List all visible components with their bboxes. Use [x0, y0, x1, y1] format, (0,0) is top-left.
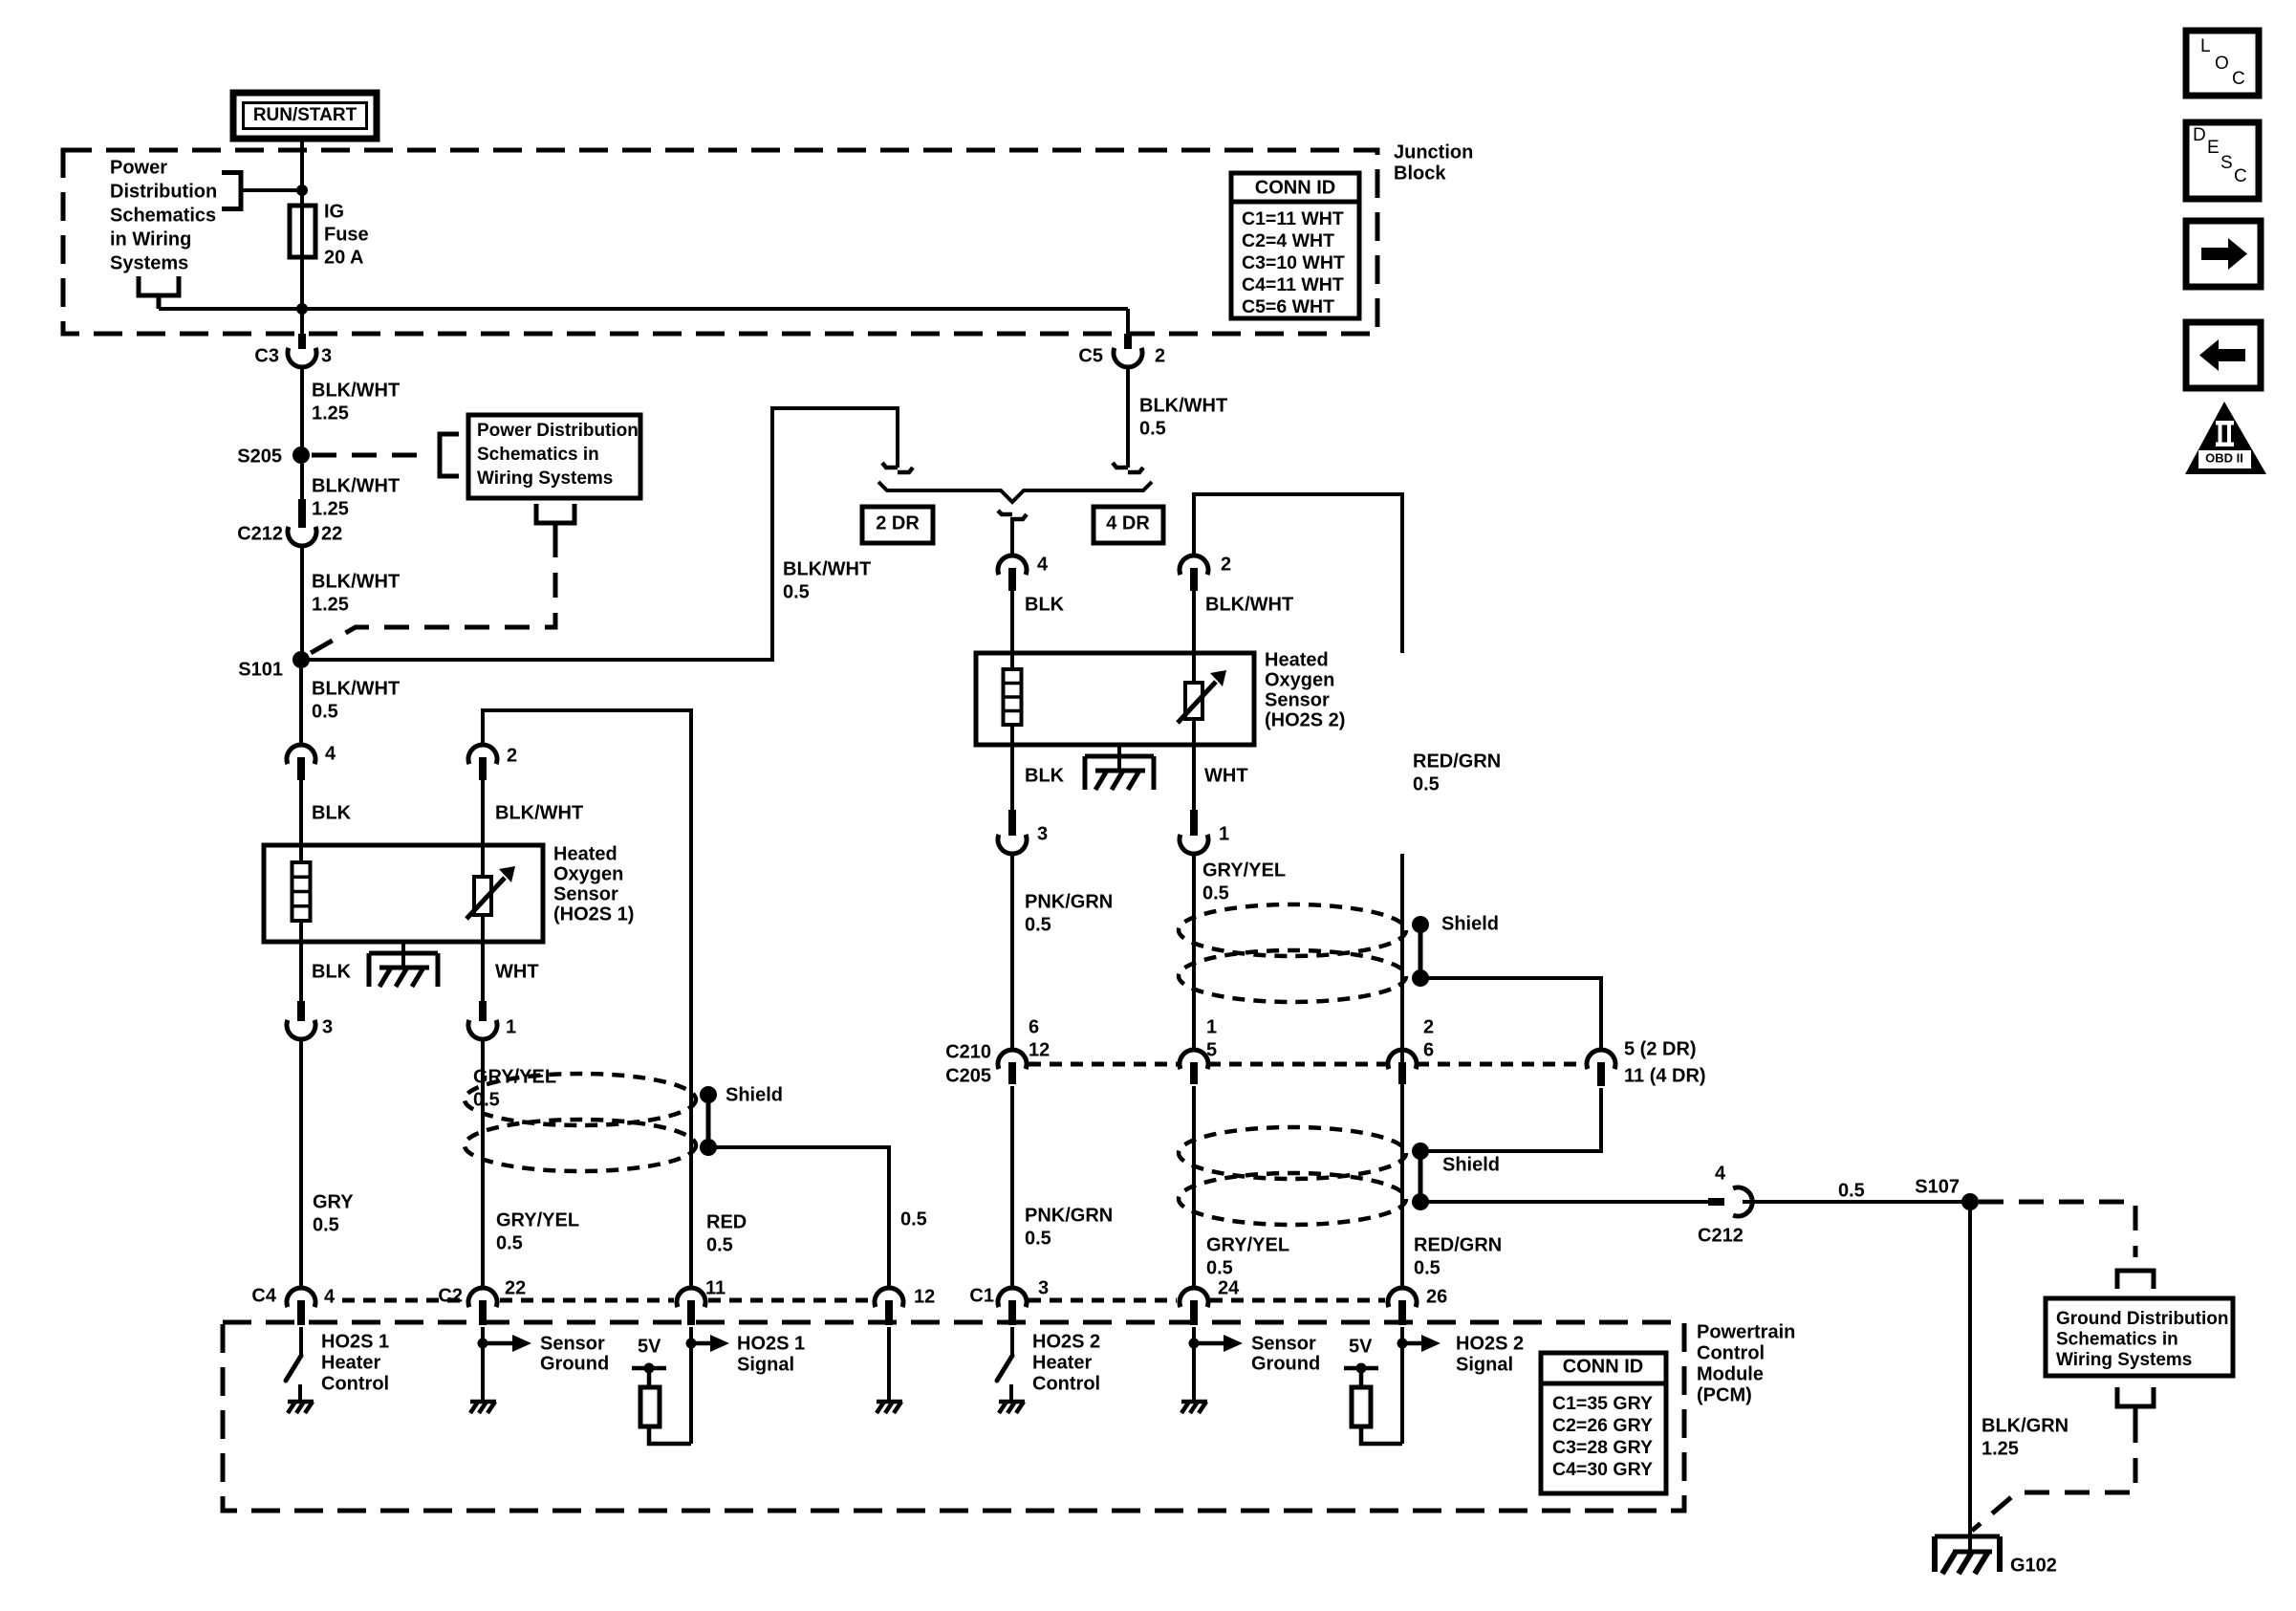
icon arrow right	[2186, 221, 2261, 287]
ground shield drain HO2S1	[877, 1400, 902, 1404]
HO2S1 signal junction	[689, 1327, 693, 1444]
svg-text:0.5: 0.5	[1139, 419, 1166, 440]
svg-text:RED/GRN: RED/GRN	[1413, 751, 1501, 773]
connector HO2S1 pin 2	[468, 745, 497, 764]
svg-text:Powertrain: Powertrain	[1697, 1322, 1795, 1343]
svg-text:4: 4	[1715, 1164, 1726, 1185]
shield drain dots lower	[1412, 1143, 1429, 1160]
connector HO2S1 pin 3	[297, 1001, 305, 1021]
wire GRY/YEL 0.5 to PCM 24	[1192, 1086, 1196, 1288]
svg-text:BLK: BLK	[1025, 595, 1065, 616]
wire fuse to junction-block bus	[300, 257, 304, 334]
svg-text:BLK/WHT: BLK/WHT	[783, 559, 871, 580]
svg-text:0.5: 0.5	[496, 1233, 523, 1254]
connector C210/C205 pin 6/12	[998, 1050, 1027, 1069]
svg-text:0.5: 0.5	[1025, 1229, 1051, 1250]
svg-text:3: 3	[1038, 1278, 1049, 1299]
svg-text:C210: C210	[945, 1042, 991, 1063]
svg-text:Wiring Systems: Wiring Systems	[477, 468, 613, 489]
svg-text:GRY: GRY	[313, 1192, 354, 1213]
svg-text:S101: S101	[238, 660, 283, 681]
svg-text:5 (2 DR): 5 (2 DR)	[1624, 1039, 1697, 1060]
svg-text:Fuse: Fuse	[324, 225, 369, 246]
svg-text:GRY/YEL: GRY/YEL	[1206, 1235, 1289, 1256]
svg-text:OBD II: OBD II	[2205, 451, 2243, 466]
ground G102	[1935, 1535, 2000, 1539]
svg-text:in Wiring: in Wiring	[110, 229, 191, 250]
svg-text:BLK/WHT: BLK/WHT	[312, 381, 400, 402]
wire S205 to C212 BLK/WHT 1.25	[300, 464, 304, 499]
sensor ground junction HO2S1	[481, 1327, 485, 1400]
svg-text:C2: C2	[438, 1286, 463, 1307]
svg-text:C1: C1	[969, 1286, 994, 1307]
svg-text:12: 12	[1029, 1040, 1050, 1061]
wire bracket to fuse-top node	[241, 188, 302, 192]
fork under Systems text	[139, 276, 179, 295]
connector HO2S1 pin 4	[287, 745, 315, 764]
svg-text:PNK/GRN: PNK/GRN	[1025, 1206, 1113, 1227]
svg-text:11: 11	[705, 1278, 726, 1299]
svg-text:2: 2	[507, 746, 517, 767]
bracket left of power distribution box	[440, 434, 459, 476]
wire BLK to HO2S1	[299, 767, 303, 845]
svg-text:Sensor: Sensor	[540, 1334, 605, 1355]
connector pin 24	[1180, 1288, 1208, 1307]
svg-text:C1=11 WHT: C1=11 WHT	[1242, 208, 1344, 229]
HO2S1 heater control switch	[299, 1327, 303, 1356]
svg-text:Heater: Heater	[321, 1353, 380, 1374]
svg-text:HO2S 2: HO2S 2	[1456, 1334, 1524, 1355]
svg-text:24: 24	[1218, 1278, 1240, 1299]
svg-text:Heated: Heated	[1265, 650, 1329, 671]
sensor ground junction HO2S2	[1192, 1327, 1196, 1400]
ground HO2S1 heater control	[288, 1400, 314, 1404]
svg-text:BLK: BLK	[312, 803, 352, 824]
brace selecting 2DR or 4DR source	[878, 482, 1152, 502]
splice S101	[292, 651, 310, 668]
svg-text:C212: C212	[1698, 1226, 1744, 1247]
svg-text:2: 2	[1423, 1017, 1434, 1038]
wire HO2S1 pin3 BLK	[299, 942, 303, 1001]
svg-text:Schematics in: Schematics in	[2056, 1329, 2178, 1349]
svg-text:(PCM): (PCM)	[1697, 1385, 1752, 1406]
bracket right of power distribution text	[222, 173, 241, 209]
4 DR option box	[1094, 507, 1163, 543]
wire HO2S1 pin1 WHT	[481, 942, 485, 1001]
svg-text:BLK/WHT: BLK/WHT	[495, 803, 583, 824]
connector pin 11	[677, 1288, 705, 1307]
wire HO2S2 pin1 WHT	[1192, 745, 1196, 810]
svg-text:C3=28 GRY: C3=28 GRY	[1552, 1437, 1653, 1458]
svg-text:C4=11 WHT: C4=11 WHT	[1242, 274, 1344, 295]
fork under power distribution box	[536, 504, 574, 523]
svg-text:WHT: WHT	[495, 962, 539, 983]
fuse IG 20 A	[290, 206, 315, 257]
junction block CONN ID table	[1231, 173, 1359, 318]
svg-text:C2=4 WHT: C2=4 WHT	[1242, 230, 1334, 251]
svg-text:Signal: Signal	[737, 1355, 794, 1376]
2 DR option box	[862, 507, 933, 543]
wire C5 branch down to brace	[1126, 367, 1130, 468]
svg-text:Control: Control	[1697, 1343, 1765, 1364]
svg-text:Shield: Shield	[1441, 914, 1499, 935]
svg-text:Control: Control	[1032, 1374, 1100, 1395]
svg-text:C: C	[2234, 166, 2247, 186]
svg-text:0.5: 0.5	[1206, 1258, 1233, 1279]
5V feed resistor HO2S2	[1344, 1366, 1378, 1371]
connector C5 pin 2	[1124, 334, 1132, 349]
svg-text:C4: C4	[251, 1286, 276, 1307]
svg-text:PNK/GRN: PNK/GRN	[1025, 892, 1113, 913]
dashed wire to G102	[1972, 1418, 2135, 1531]
splice S205	[292, 446, 310, 464]
heater element HO2S1	[299, 767, 303, 942]
svg-text:RUN/START: RUN/START	[253, 105, 357, 125]
svg-text:BLK: BLK	[312, 962, 352, 983]
fork below ground distribution box	[2117, 1387, 2154, 1406]
svg-text:0.5: 0.5	[1414, 1258, 1440, 1279]
svg-text:1.25: 1.25	[312, 499, 349, 520]
svg-text:BLK/WHT: BLK/WHT	[312, 476, 400, 497]
curl end of C5 branch wire	[1113, 463, 1128, 468]
svg-text:12: 12	[914, 1287, 935, 1308]
svg-text:S107: S107	[1915, 1177, 1960, 1198]
svg-text:4: 4	[1037, 555, 1049, 576]
wire RUN/START to fuse	[300, 139, 304, 206]
wire C3 to S205 BLK/WHT 1.25	[300, 367, 304, 455]
svg-text:D: D	[2193, 125, 2206, 145]
svg-text:C: C	[2232, 69, 2245, 89]
svg-text:Signal: Signal	[1456, 1355, 1513, 1376]
ground HO2S2 heater control	[999, 1400, 1025, 1404]
connector C4 pin 4	[287, 1288, 315, 1307]
svg-text:26: 26	[1426, 1287, 1447, 1308]
svg-text:Module: Module	[1697, 1364, 1764, 1385]
svg-text:2 DR: 2 DR	[876, 513, 920, 534]
svg-text:GRY/YEL: GRY/YEL	[1202, 860, 1286, 882]
fork above ground distribution box	[2117, 1271, 2154, 1289]
svg-text:Sensor: Sensor	[1265, 690, 1330, 711]
svg-text:C5: C5	[1078, 346, 1103, 367]
wire lower shield to S107	[1420, 1200, 1708, 1204]
svg-text:C4=30 GRY: C4=30 GRY	[1552, 1459, 1653, 1480]
svg-text:0.5: 0.5	[900, 1209, 927, 1230]
wire GRY/YEL 0.5 to C210	[1192, 854, 1196, 1050]
wire S107 to G102 BLK/GRN 1.25	[1968, 1202, 1972, 1552]
svg-text:BLK/WHT: BLK/WHT	[312, 572, 400, 593]
wire S101 to HO2S1 pin 4 BLK/WHT 0.5	[299, 668, 303, 745]
curl end of S101 branch wire	[882, 463, 898, 468]
heater element HO2S2	[1010, 591, 1014, 745]
wire HO2S1 shield to PCM pin 12 0.5	[708, 1147, 889, 1288]
svg-text:C1=35 GRY: C1=35 GRY	[1552, 1393, 1653, 1414]
svg-text:20 A: 20 A	[324, 248, 364, 269]
connector C2 pin 22	[468, 1288, 497, 1307]
svg-text:BLK/WHT: BLK/WHT	[312, 679, 400, 700]
svg-text:L: L	[2200, 36, 2211, 56]
connector HO2S2 pin 1	[1190, 810, 1198, 836]
svg-text:0.5: 0.5	[313, 1215, 339, 1236]
svg-text:BLK/GRN: BLK/GRN	[1982, 1416, 2069, 1437]
wire HO2S1 pin 2 branch to signal	[483, 710, 691, 1288]
connector HO2S2 pin 2	[1180, 555, 1208, 575]
svg-text:0.5: 0.5	[473, 1090, 500, 1111]
dashed reference wire from S205	[312, 453, 432, 458]
svg-text:C205: C205	[945, 1066, 991, 1087]
wire HO2S2 pin3 BLK	[1010, 745, 1014, 810]
svg-text:RED/GRN: RED/GRN	[1414, 1235, 1502, 1256]
svg-text:C3: C3	[254, 346, 279, 367]
bus wire inside junction block	[159, 307, 1128, 311]
icon LOC	[2186, 31, 2259, 96]
svg-text:3: 3	[322, 1017, 333, 1038]
svg-text:Heated: Heated	[553, 844, 617, 865]
svg-text:4: 4	[325, 744, 336, 765]
svg-text:GRY/YEL: GRY/YEL	[496, 1210, 579, 1231]
PCM CONN ID table	[1541, 1353, 1666, 1493]
svg-text:C5=6 WHT: C5=6 WHT	[1242, 296, 1334, 317]
svg-text:5V: 5V	[638, 1337, 661, 1358]
connector C210/C205 pin 2/6	[1388, 1050, 1417, 1069]
svg-text:22: 22	[505, 1278, 526, 1299]
svg-text:Oxygen: Oxygen	[1265, 670, 1334, 691]
svg-text:HO2S 1: HO2S 1	[321, 1332, 389, 1353]
wire RED/GRN 0.5 to PCM 26	[1400, 854, 1404, 1288]
reference box Power Distribution Schematics in Wiring Systems	[468, 415, 640, 498]
svg-text:3: 3	[321, 346, 332, 367]
svg-text:CONN ID: CONN ID	[1563, 1357, 1643, 1378]
svg-text:Ground Distribution: Ground Distribution	[2056, 1309, 2228, 1329]
icon OBD II triangle	[2185, 402, 2266, 474]
wire bus corner to C5	[1126, 309, 1130, 334]
shield ellipses around GRY/YEL HO2S1	[465, 1074, 696, 1125]
wire GRY/YEL 0.5 to PCM C2	[481, 1039, 485, 1288]
wire PNK/GRN 0.5 to C210	[1010, 854, 1014, 1050]
svg-text:Shield: Shield	[726, 1085, 783, 1106]
svg-text:Systems: Systems	[110, 253, 188, 274]
svg-text:3: 3	[1037, 824, 1048, 845]
svg-text:22: 22	[321, 524, 342, 545]
svg-text:6: 6	[1423, 1040, 1434, 1061]
svg-text:Shield: Shield	[1442, 1155, 1500, 1176]
svg-text:Sensor: Sensor	[1251, 1334, 1316, 1355]
svg-text:(HO2S 1): (HO2S 1)	[553, 904, 634, 925]
svg-text:Control: Control	[321, 1374, 389, 1395]
svg-text:0.5: 0.5	[312, 702, 338, 723]
svg-text:C212: C212	[237, 524, 283, 545]
svg-text:2: 2	[1155, 346, 1165, 367]
svg-text:C2=26 GRY: C2=26 GRY	[1552, 1415, 1653, 1436]
svg-text:1.25: 1.25	[312, 595, 349, 616]
oxygen sense element HO2S2 (variable source)	[1192, 591, 1196, 745]
shield drain ground wire	[887, 1327, 891, 1400]
svg-text:CONN ID: CONN ID	[1255, 178, 1335, 199]
shield ellipses around GRY/YEL (lower)	[1179, 1127, 1406, 1179]
wire shield to 5(2DR) connector	[1420, 978, 1601, 1050]
svg-text:WHT: WHT	[1204, 766, 1248, 787]
svg-text:E: E	[2207, 138, 2220, 158]
svg-text:0.5: 0.5	[1202, 883, 1229, 904]
PCM connector row dashed	[342, 1298, 466, 1303]
svg-text:HO2S 2: HO2S 2	[1032, 1332, 1100, 1353]
svg-text:Ground: Ground	[1251, 1354, 1320, 1375]
shield drain dots upper	[1412, 916, 1429, 933]
svg-text:1.25: 1.25	[312, 403, 349, 425]
svg-text:Power Distribution: Power Distribution	[477, 421, 639, 441]
connector C212 pin 22	[298, 499, 306, 528]
svg-text:G102: G102	[2010, 1556, 2057, 1577]
svg-text:0.5: 0.5	[1025, 915, 1051, 936]
svg-text:S: S	[2220, 153, 2233, 173]
shield drain dots HO2S1	[700, 1086, 717, 1103]
case ground HO2S2	[1117, 745, 1121, 772]
svg-text:2: 2	[1221, 555, 1231, 576]
connector pin 26	[1388, 1288, 1417, 1307]
ground sensor ground HO2S2	[1181, 1400, 1207, 1404]
svg-text:HO2S 1: HO2S 1	[737, 1334, 805, 1355]
svg-text:1.25: 1.25	[1982, 1439, 2019, 1460]
reference box Ground Distribution Schematics in Wiring Systems	[2046, 1298, 2233, 1376]
wire brace to HO2S2 pin 4	[1010, 517, 1014, 555]
svg-text:0.5: 0.5	[783, 582, 810, 603]
connector C210/C205 pin 1/5	[1180, 1050, 1208, 1069]
svg-text:0.5: 0.5	[706, 1235, 733, 1256]
svg-text:Schematics: Schematics	[110, 206, 216, 227]
svg-text:Schematics in: Schematics in	[477, 445, 599, 465]
component box Heated Oxygen Sensor HO2S 2	[976, 653, 1254, 745]
connector row C210 C205 dashed	[1029, 1062, 1180, 1067]
svg-text:6: 6	[1029, 1017, 1039, 1038]
junction node at fuse top	[296, 185, 308, 196]
svg-text:RED: RED	[706, 1212, 747, 1233]
svg-text:C3=10 WHT: C3=10 WHT	[1242, 252, 1345, 273]
dashed wire box to S101	[304, 533, 555, 657]
wire GRY 0.5 to PCM C4	[299, 1039, 303, 1288]
shield ellipses around GRY/YEL (upper)	[1179, 904, 1406, 956]
oxygen sense element HO2S1	[481, 767, 485, 942]
svg-text:5V: 5V	[1349, 1337, 1373, 1358]
connector C212 pin 4 (horizontal)	[1708, 1198, 1724, 1206]
wire 5(2DR) connector to lower shield	[1420, 1088, 1601, 1151]
wire S101 branch to 2DR/4DR brace	[301, 408, 898, 660]
svg-text:0.5: 0.5	[1838, 1181, 1865, 1202]
svg-text:0.5: 0.5	[1413, 774, 1440, 795]
switch source RUN/START box	[233, 93, 377, 139]
svg-text:1: 1	[506, 1017, 516, 1038]
svg-text:Wiring Systems: Wiring Systems	[2056, 1350, 2192, 1370]
svg-text:Distribution: Distribution	[110, 182, 217, 203]
HO2S2 signal junction	[1400, 1327, 1404, 1444]
HO2S2 heater control switch	[1010, 1327, 1014, 1356]
svg-text:Heater: Heater	[1032, 1353, 1092, 1374]
connector 5 (2 DR) / 11 (4 DR)	[1587, 1050, 1615, 1069]
svg-text:11 (4 DR): 11 (4 DR)	[1624, 1066, 1706, 1087]
icon arrow left	[2186, 322, 2261, 388]
PCM dashed outline	[223, 1322, 1684, 1511]
splice S107	[1961, 1193, 1979, 1210]
svg-text:O: O	[2215, 54, 2229, 74]
connector HO2S1 pin 1	[479, 1001, 487, 1021]
svg-text:Oxygen: Oxygen	[553, 864, 623, 885]
svg-text:1: 1	[1206, 1017, 1217, 1038]
svg-text:(HO2S 2): (HO2S 2)	[1265, 710, 1345, 731]
svg-text:BLK: BLK	[1025, 766, 1065, 787]
connector pin 12	[875, 1288, 903, 1307]
case ground HO2S1	[401, 942, 405, 969]
svg-text:4: 4	[324, 1287, 336, 1308]
wire HO2S2 pin 2 to RED/GRN branch	[1194, 494, 1402, 653]
wire C212 to S107 0.5	[1743, 1200, 1970, 1204]
wire BLK to HO2S2	[1010, 591, 1014, 653]
svg-text:IG: IG	[324, 202, 344, 223]
svg-text:S205: S205	[237, 446, 282, 468]
connector HO2S2 pin 3	[1008, 810, 1016, 836]
wire PNK/GRN 0.5 to PCM C1	[1010, 1086, 1014, 1288]
dashed wire S107 to ground distribution	[1979, 1202, 2135, 1257]
wire C212 to S101 BLK/WHT 1.25	[300, 546, 304, 660]
svg-text:Sensor: Sensor	[553, 884, 618, 905]
svg-text:Power: Power	[110, 158, 167, 179]
svg-text:Ground: Ground	[540, 1354, 609, 1375]
svg-text:1: 1	[1219, 824, 1229, 845]
svg-text:4 DR: 4 DR	[1106, 513, 1150, 534]
connector HO2S2 pin 4	[998, 555, 1027, 575]
svg-text:5: 5	[1206, 1040, 1217, 1061]
connector C3 pin 3	[298, 334, 306, 349]
junction block dashed outline	[63, 150, 1377, 334]
svg-text:BLK/WHT: BLK/WHT	[1205, 595, 1293, 616]
junction node on bus	[296, 303, 308, 315]
5V feed resistor HO2S1	[632, 1366, 666, 1371]
svg-text:Junction: Junction	[1394, 142, 1473, 163]
ground sensor ground HO2S1	[470, 1400, 496, 1404]
connector C1 pin 3	[998, 1288, 1027, 1307]
hook under brace	[998, 511, 1012, 514]
svg-text:Block: Block	[1394, 163, 1446, 185]
svg-text:BLK/WHT: BLK/WHT	[1139, 396, 1227, 417]
icon DESC	[2186, 122, 2259, 199]
component box Heated Oxygen Sensor HO2S 1	[264, 845, 543, 942]
